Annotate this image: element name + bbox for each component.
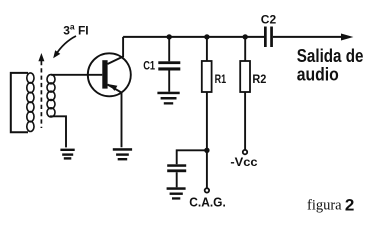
svg-text:C2: C2 — [261, 13, 277, 27]
svg-text:figura: figura — [307, 198, 342, 214]
svg-text:C.A.G.: C.A.G. — [189, 195, 226, 210]
svg-text:-Vcc: -Vcc — [230, 155, 258, 169]
svg-text:2: 2 — [345, 195, 354, 214]
svg-text:R2: R2 — [252, 72, 266, 86]
svg-text:Salida de: Salida de — [297, 46, 364, 66]
svg-text:R1: R1 — [215, 72, 227, 86]
svg-text:3a FI: 3a FI — [63, 22, 88, 38]
svg-text:audio: audio — [297, 65, 339, 85]
svg-text:C1: C1 — [143, 58, 155, 72]
